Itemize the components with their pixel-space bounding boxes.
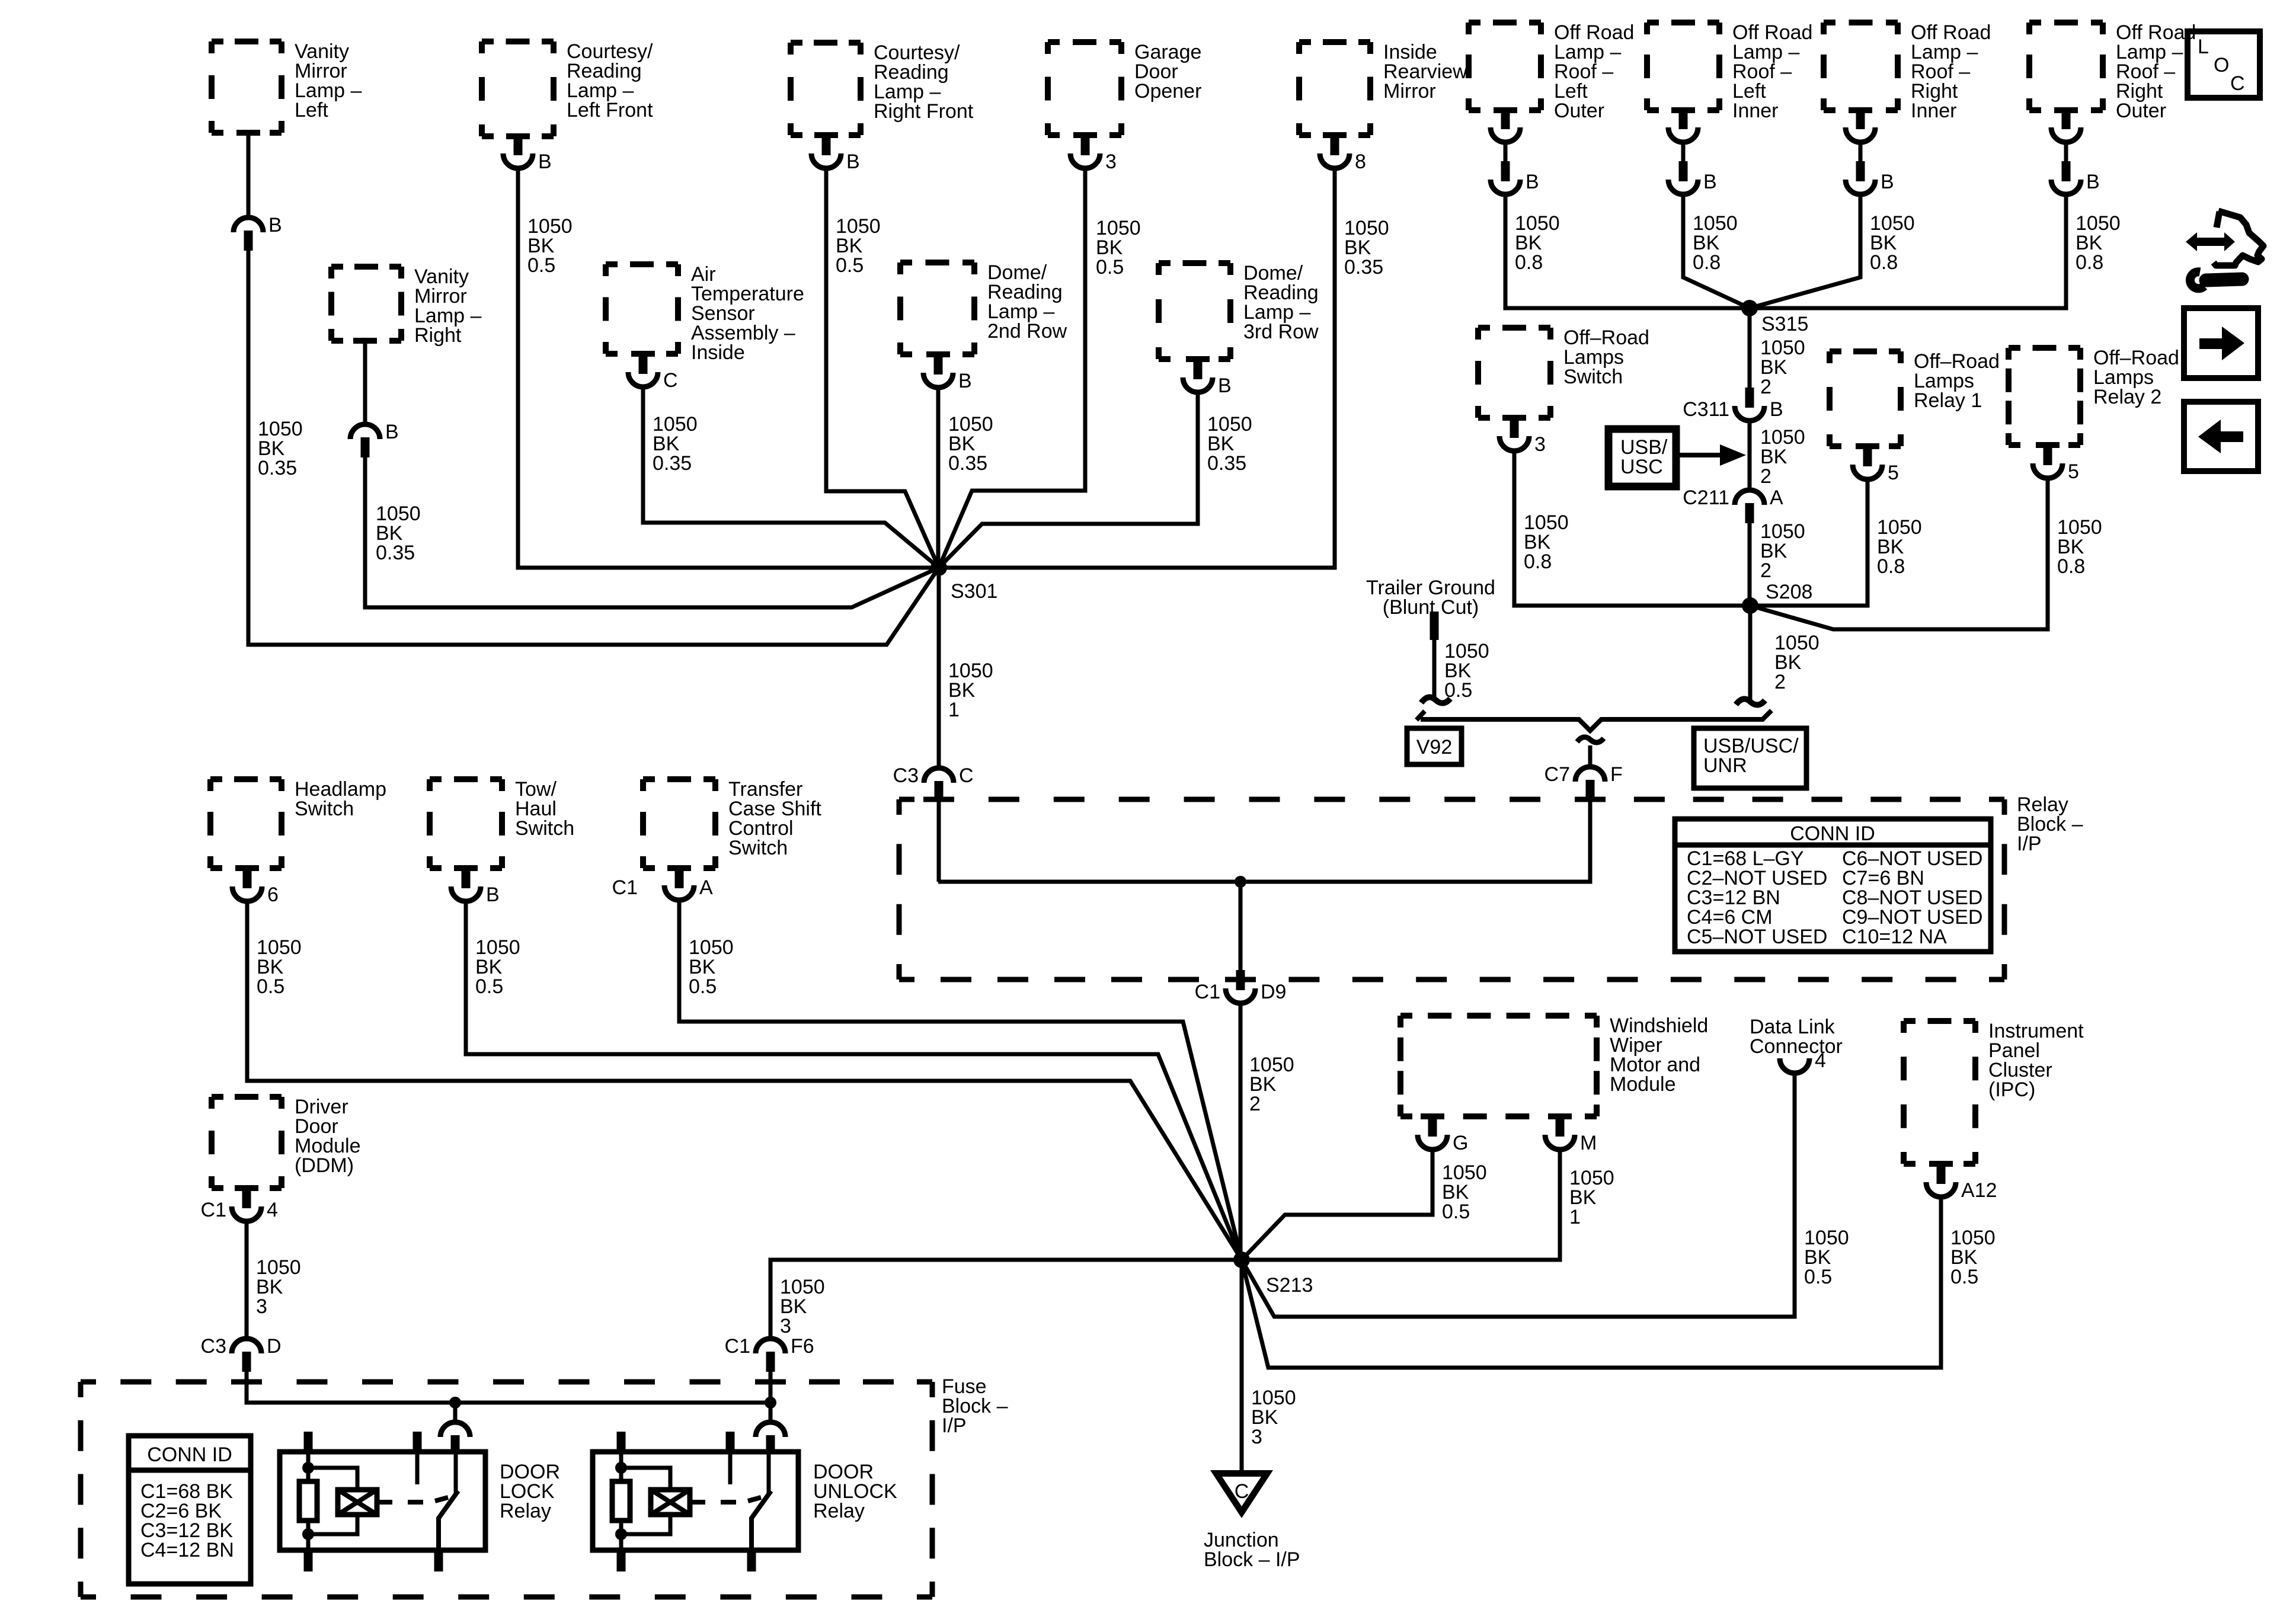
wire S213 left to C1-F6 drop 1050 BK 3 [770, 1260, 1242, 1337]
wire label 1050 BK 3 (to C1-F6) [780, 1276, 825, 1337]
svg-text:L: L [2198, 36, 2209, 58]
svg-text:Right Front: Right Front [874, 100, 974, 123]
wire label 1050 BK 0.35 (Inside Rearview Mirror) [1344, 217, 1389, 279]
svg-text:0.5: 0.5 [836, 254, 864, 277]
inline connector C311 pin B [1683, 388, 1783, 421]
svg-text:B: B [385, 421, 399, 443]
component box: Transfer Case Shift Control Switch [643, 778, 821, 868]
connector 5 of Off-Road Lamps Relay 2 (pin 5) [2033, 444, 2079, 483]
connector C of Air Temperature Sensor Assembly (pin C) [628, 353, 678, 392]
wire label 1050 BK 0.5 (Headlamp Switch) [257, 936, 302, 998]
svg-text:3: 3 [256, 1295, 267, 1318]
svg-text:3: 3 [1251, 1426, 1262, 1448]
wire label 1050 BK 0.8 (Relay 1) [1877, 516, 1922, 578]
wire Vanity-R 1050 BK 0.35 to S301 [365, 457, 939, 607]
svg-text:B: B [1703, 171, 1717, 193]
svg-text:UNR: UNR [1703, 754, 1747, 777]
svg-text:0.8: 0.8 [1524, 550, 1552, 573]
svg-text:I/P: I/P [942, 1414, 967, 1437]
svg-text:1: 1 [1569, 1206, 1581, 1228]
component box: Off-Road Lamps Relay 1 [1830, 350, 2000, 446]
wire label 1050 BK 0.35 (Air Temp Sensor) [653, 413, 698, 475]
svg-text:D9: D9 [1261, 981, 1286, 1003]
USB/USC callout box with arrow [1609, 429, 1746, 486]
inline connector pair of Off Road Lamp Right Inner (pin B) [1846, 109, 1894, 194]
wire C1-D9 down 1050 BK 2 to S213 [1240, 1003, 1294, 1260]
wire label 1050 BK 0.5 (Transfer Case Switch) [689, 936, 734, 998]
junction to DOOR UNLOCK relay coil (C1-F6 drop) [765, 1397, 776, 1409]
Trailer Ground (Blunt Cut) label [1366, 577, 1495, 619]
svg-text:M: M [1580, 1132, 1597, 1154]
inline connector C1 pin D9 (Relay Block bottom) [1195, 970, 1287, 1003]
wire Tow/Haul Switch 1050 BK 0.5 to S213 [466, 901, 1242, 1260]
svg-text:Connector: Connector [1750, 1035, 1843, 1058]
component box: Courtesy/Reading Lamp - Right Front [791, 41, 974, 135]
svg-text:S315: S315 [1761, 313, 1808, 335]
svg-text:2nd Row: 2nd Row [987, 320, 1067, 343]
wire C211 to S208 1050 BK 2 [1750, 520, 1805, 606]
component box: Driver Door Module (DDM) [212, 1096, 361, 1188]
svg-text:D: D [267, 1335, 282, 1358]
trailer ground blunt-cut stub and wire [1430, 612, 1439, 698]
connector B of Courtesy/Reading Lamp - Left Front (pin B) [503, 134, 552, 173]
svg-text:O: O [2214, 54, 2229, 76]
wire label 1050 BK 0.5 (Data Link Connector) [1804, 1227, 1849, 1288]
svg-text:B: B [1218, 375, 1232, 397]
svg-text:S301: S301 [951, 580, 997, 603]
svg-text:Left: Left [295, 99, 328, 121]
legend box arrow right [2184, 308, 2258, 378]
component box: Dome/Reading Lamp - 3rd Row [1159, 262, 1319, 359]
component box: Inside Rearview Mirror [1299, 41, 1467, 135]
svg-text:B: B [1770, 398, 1783, 421]
wire Garage Door Opener 1050 BK 0.5 to S301 [939, 168, 1085, 568]
svg-text:8: 8 [1355, 151, 1366, 173]
svg-text:Opener: Opener [1134, 80, 1201, 103]
wire Dome 2nd Row 1050 BK 0.35 to S301 [936, 388, 941, 568]
CONN ID table of Fuse Block [129, 1436, 251, 1584]
svg-text:(IPC): (IPC) [1988, 1078, 2035, 1101]
wire label 1050 BK 0.8 (Off Road Lamp Left Outer) [1515, 212, 1560, 274]
wire C3-D into fuse block to door lock relay junction [247, 1372, 770, 1403]
component box: Headlamp Switch [210, 778, 386, 868]
connector B of Vanity Mirror Lamp - Right (pin B) [350, 341, 399, 457]
svg-text:4: 4 [1815, 1049, 1826, 1072]
vehicle service icon with double arrow and wrench [2186, 211, 2263, 289]
svg-text:Relay: Relay [813, 1500, 865, 1522]
wire Air Temp Sensor 1050 BK 0.35 to S301 [643, 387, 939, 568]
inline connector pair of Off Road Lamp Right Outer (pin B) [2051, 109, 2100, 194]
svg-text:Relay: Relay [500, 1500, 551, 1522]
wire C1-F6 into fuse block to unlock relay junction [769, 1372, 773, 1403]
svg-text:0.5: 0.5 [1804, 1266, 1832, 1288]
component box: Instrument Panel Cluster (IPC) [1904, 1020, 2084, 1164]
svg-text:C1: C1 [1195, 981, 1220, 1003]
wire Courtesy-LF 1050 BK 0.5 to S301 [518, 168, 939, 568]
svg-text:3: 3 [1105, 151, 1117, 173]
svg-text:0.5: 0.5 [1096, 256, 1124, 279]
component box: Dome/Reading Lamp - 2nd Row [900, 261, 1067, 354]
Relay Block - I/P dashed outline [899, 793, 2083, 980]
svg-text:F6: F6 [791, 1335, 814, 1358]
wire Vanity-L 1050 BK 0.35 to S301 [248, 251, 939, 645]
svg-text:0.35: 0.35 [653, 452, 692, 475]
svg-text:S213: S213 [1266, 1274, 1313, 1297]
svg-text:3: 3 [780, 1315, 791, 1337]
component box: Garage Door Opener [1048, 41, 1201, 135]
wire junction down to C1-D9 [1239, 882, 1243, 970]
svg-text:Module: Module [1610, 1073, 1676, 1096]
wire label 1050 BK 0.5 (Garage Door Opener) [1096, 217, 1141, 279]
splice S213 [1233, 1251, 1313, 1297]
svg-text:Inner: Inner [1911, 100, 1957, 122]
svg-text:C3: C3 [893, 764, 919, 787]
svg-text:Inner: Inner [1732, 100, 1779, 122]
component box: Courtesy/Reading Lamp - Left Front [482, 40, 653, 136]
svg-text:C1: C1 [725, 1335, 750, 1358]
ground gather brace into C7 [1416, 710, 1771, 742]
wire label 1050 BK 0.5 (Wiper G) [1442, 1161, 1487, 1223]
blunt-cut curl at end of trailer ground wire [1421, 697, 1450, 703]
wire S213 down 1050 BK 3 to Junction Block [1242, 1260, 1296, 1473]
connector A12 of Instrument Panel Cluster [1926, 1163, 1997, 1202]
svg-text:C7: C7 [1544, 763, 1570, 786]
svg-text:0.35: 0.35 [948, 452, 987, 475]
svg-text:4: 4 [267, 1199, 278, 1221]
connector G of Windshield Wiper Motor (pin G) [1418, 1115, 1468, 1154]
svg-text:Switch: Switch [515, 817, 574, 840]
svg-text:C: C [1235, 1480, 1249, 1503]
svg-text:0.5: 0.5 [689, 975, 717, 998]
wire Data Link Connector 1050 BK 0.5 to S213 [1242, 1073, 1795, 1317]
inline connector pair of Off Road Lamp Left Outer (pin B) [1491, 109, 1539, 194]
wire label 1050 BK 0.35 (Vanity-L) [258, 418, 303, 479]
component box: Off Road Lamp - Roof - Left Inner [1647, 21, 1812, 122]
inline connector C3 pin D (Fuse Block) [201, 1335, 282, 1372]
wire S208 down 1050 BK 2 to ground gather [1750, 606, 1819, 702]
svg-text:C: C [959, 764, 974, 787]
inline connector C211 pin A [1683, 486, 1783, 523]
splice S301 [930, 559, 997, 603]
wire Transfer Case Switch 1050 BK 0.5 to S213 [679, 900, 1242, 1260]
wire IPC A12 1050 BK 0.5 to S213 [1242, 1197, 1941, 1368]
svg-text:5: 5 [1888, 462, 1899, 484]
svg-text:Switch: Switch [1563, 366, 1623, 388]
wire Off Road Lamp Right Inner to S315 [1750, 194, 1860, 308]
component box: Off Road Lamp - Roof - Right Inner [1824, 21, 1991, 122]
svg-text:0.8: 0.8 [1693, 251, 1721, 274]
svg-text:B: B [538, 151, 552, 173]
relay K2 DOOR UNLOCK Relay [593, 1432, 897, 1571]
wire C3-C into relay block down to horizontal run [937, 801, 941, 882]
wire Off Road Lamp Left Inner to S315 [1683, 194, 1750, 308]
inline connector C1 pin 4 (DDM) [201, 1188, 278, 1221]
legend box arrow left [2184, 402, 2258, 471]
svg-text:B: B [268, 214, 282, 236]
wire label 1050 BK 0.8 (Off Road Lamp Right Inner) [1870, 212, 1915, 274]
wire C311 to C211 1050 BK 2 [1750, 421, 1805, 488]
svg-text:Mirror: Mirror [1383, 80, 1436, 103]
wire label 1050 BK 0.35 (Vanity-R) [376, 502, 421, 564]
wire label 1050 BK 0.8 (Off Road Lamp Left Inner) [1693, 212, 1738, 274]
svg-text:C1: C1 [201, 1199, 226, 1221]
connector 5 of Off-Road Lamps Relay 1 (pin 5) [1853, 445, 1899, 484]
svg-text:S208: S208 [1766, 581, 1812, 603]
svg-text:2: 2 [1774, 671, 1786, 693]
wire Headlamp Switch 1050 BK 0.5 to S213 [247, 901, 1242, 1260]
wire junction down to DOOR LOCK relay with connector [440, 1403, 470, 1453]
svg-text:3: 3 [1534, 433, 1546, 456]
wire Wiper M 1050 BK 1 to S213 [1242, 1150, 1560, 1260]
wire Off-Road Lamps Relay 1 1050 BK 0.8 to S208 [1750, 479, 1868, 606]
connector 6 of Headlamp Switch (pin 6) [232, 867, 279, 906]
svg-text:0.35: 0.35 [376, 542, 415, 564]
svg-text:C211: C211 [1683, 486, 1729, 509]
connector B of Vanity Mirror Lamp - Left (pin B) [234, 133, 282, 251]
wire label 1050 BK 0.5 (trailer ground) [1444, 640, 1489, 702]
junction to DOOR LOCK relay coil [449, 1397, 461, 1409]
connector M of Windshield Wiper Motor (pin M) [1545, 1115, 1597, 1154]
wire label 1050 BK 1 (Wiper M) [1569, 1167, 1614, 1228]
wire junction down to DOOR UNLOCK relay with connector [756, 1403, 785, 1453]
connector C1-A of Transfer Case Shift Control Switch [612, 867, 713, 900]
inline connector pair of Off Road Lamp Left Inner (pin B) [1668, 109, 1717, 194]
component box: Off-Road Lamps Relay 2 [2009, 347, 2179, 445]
LOC legend box [2188, 31, 2260, 98]
wire label 1050 BK 0.5 (IPC) [1950, 1227, 1996, 1288]
svg-text:CONN ID: CONN ID [147, 1443, 232, 1466]
svg-text:C4=12 BN: C4=12 BN [140, 1539, 234, 1561]
svg-text:G: G [1453, 1132, 1468, 1154]
Fuse Block - I/P dashed outline [81, 1375, 1008, 1597]
svg-text:Inside: Inside [691, 341, 745, 364]
svg-text:0.5: 0.5 [475, 975, 503, 998]
svg-text:V92: V92 [1416, 736, 1453, 758]
svg-text:0.5: 0.5 [1444, 679, 1472, 702]
svg-text:B: B [958, 370, 972, 392]
svg-text:B: B [1526, 171, 1539, 193]
connector B of Tow/Haul Switch (pin B) [451, 867, 500, 906]
component box: Vanity Mirror Lamp - Left [212, 40, 362, 133]
svg-text:0.5: 0.5 [1442, 1201, 1470, 1223]
svg-text:Outer: Outer [2116, 100, 2166, 122]
svg-text:F: F [1610, 763, 1623, 786]
wire S301 down 1050 BK 1 to C3-C [939, 568, 993, 766]
wire label 1050 BK 0.5 (Courtesy-RF) [836, 215, 881, 277]
svg-text:A12: A12 [1961, 1179, 1997, 1202]
svg-text:0.8: 0.8 [1877, 555, 1905, 578]
connector B of Dome/Reading Lamp 2nd Row (pin B) [923, 353, 972, 392]
inline connector C3 pin C (Relay Block) [893, 764, 974, 801]
wire Inside Rearview Mirror 1050 BK 0.35 to S301 [939, 168, 1335, 568]
component box: Air Temperature Sensor Assembly - Inside [606, 263, 804, 364]
svg-text:3rd Row: 3rd Row [1243, 321, 1319, 343]
inline connector C1 pin F6 (Fuse Block) [725, 1335, 814, 1372]
wire from ground gather to C7-F [1588, 745, 1593, 766]
wire label 1050 BK 0.8 (Off Road Lamp Right Outer) [2076, 212, 2121, 274]
svg-text:C: C [2230, 72, 2245, 95]
connector B of Courtesy/Reading Lamp - Right Front (pin B) [811, 134, 860, 173]
ground terminal C triangle at Junction Block - I/P [1210, 1470, 1273, 1518]
connector 8 of Inside Rearview Mirror (pin 8) [1320, 134, 1366, 173]
CONN ID table of Relay Block [1675, 819, 1991, 952]
svg-text:0.8: 0.8 [1870, 251, 1898, 274]
wire label 1050 BK 0.5 (Tow/Haul Switch) [475, 936, 520, 998]
wire C7-F into relay block to C1-D9 junction [938, 800, 1590, 882]
component box: Vanity Mirror Lamp - Right [331, 265, 481, 347]
inline connector C7 pin F (Relay Block) [1544, 763, 1623, 800]
svg-text:(DDM): (DDM) [295, 1154, 354, 1177]
svg-text:0.8: 0.8 [2057, 555, 2085, 578]
svg-text:2: 2 [1760, 559, 1771, 582]
wire label 1050 BK 0.8 (Relay 2) [2057, 516, 2102, 578]
svg-text:C10=12 NA: C10=12 NA [1842, 926, 1947, 948]
wire Dome 3rd Row 1050 BK 0.35 to S301 [939, 392, 1198, 568]
svg-text:C3: C3 [201, 1335, 226, 1358]
svg-text:0.5: 0.5 [527, 254, 555, 277]
svg-text:5: 5 [2068, 460, 2079, 483]
component box: Windshield Wiper Motor and Module [1400, 1014, 1708, 1116]
svg-text:0.35: 0.35 [258, 457, 297, 479]
svg-text:B: B [486, 884, 500, 906]
splice S315 [1741, 300, 1808, 335]
connector 3 of Garage Door Opener (pin 3) [1070, 134, 1117, 173]
wire label 1050 BK 0.35 (Dome 2nd Row) [948, 413, 993, 475]
svg-text:2: 2 [1760, 465, 1771, 488]
connector 3 of Off-Road Lamps Switch (pin 3) [1499, 417, 1546, 456]
svg-text:Switch: Switch [728, 837, 788, 859]
relay K1 DOOR LOCK Relay [280, 1432, 560, 1571]
component box: Off-Road Lamps Switch [1478, 327, 1649, 418]
wire Courtesy-RF 1050 BK 0.5 to S301 [826, 168, 939, 568]
svg-text:Right: Right [414, 324, 462, 347]
svg-text:0.5: 0.5 [1950, 1266, 1978, 1288]
svg-text:Relay 2: Relay 2 [2093, 386, 2161, 408]
svg-text:CONN ID: CONN ID [1790, 822, 1875, 845]
Data Link Connector label [1750, 1016, 1843, 1058]
component box: Off Road Lamp - Roof - Right Outer [2029, 21, 2196, 122]
svg-text:0.5: 0.5 [257, 975, 284, 998]
blunt-cut curl at end of S208 ground wire [1736, 699, 1765, 705]
svg-text:0.8: 0.8 [1515, 251, 1543, 274]
svg-text:0.35: 0.35 [1344, 256, 1383, 279]
svg-text:A: A [699, 876, 713, 899]
svg-text:B: B [1881, 171, 1894, 193]
svg-text:Block – I/P: Block – I/P [1204, 1548, 1300, 1571]
svg-text:I/P: I/P [2017, 833, 2042, 855]
wire Off-Road Lamps Relay 2 1050 BK 0.8 to S208 [1750, 478, 2048, 629]
wire Off-Road Lamps Switch 1050 BK 0.8 to S208 [1514, 451, 1750, 606]
svg-text:0.35: 0.35 [1207, 452, 1246, 475]
wire Off Road Lamp Right Outer to S315 [1750, 194, 2066, 308]
V92 callout box [1407, 728, 1462, 764]
wire label 1050 BK 0.35 (Dome 3rd Row) [1207, 413, 1252, 475]
svg-text:Relay 1: Relay 1 [1914, 389, 1982, 412]
junction of C7-F run and C1-D9 drop [1235, 876, 1246, 888]
wire S315 to C311 1050 BK 2 [1750, 308, 1805, 398]
svg-text:B: B [846, 151, 860, 173]
svg-text:Outer: Outer [1554, 100, 1604, 122]
Junction Block - I/P label [1204, 1529, 1300, 1571]
svg-text:2: 2 [1249, 1093, 1261, 1115]
wire label 1050 BK 0.5 (Courtesy-LF) [527, 215, 573, 277]
USB/USC/UNR callout box [1694, 728, 1806, 788]
splice S208 [1742, 581, 1812, 614]
svg-text:Left Front: Left Front [567, 99, 653, 121]
wire label 1050 BK 0.8 (Off-Road Lamps Switch) [1524, 511, 1569, 573]
svg-text:Switch: Switch [295, 798, 354, 820]
component box: Off Road Lamp - Roof - Left Outer [1469, 21, 1634, 122]
component box: Tow/Haul Switch [430, 778, 574, 868]
svg-text:C311: C311 [1683, 398, 1729, 421]
svg-text:C: C [663, 369, 678, 392]
svg-text:USC: USC [1620, 456, 1663, 478]
wire Off Road Lamp Left Outer to S315 [1505, 194, 1750, 308]
svg-text:B: B [2086, 171, 2100, 193]
svg-text:2: 2 [1760, 376, 1771, 398]
svg-text:6: 6 [267, 884, 279, 906]
wire DDM 1050 BK 3 to C3-D [247, 1221, 301, 1337]
connector B of Dome/Reading Lamp 3rd Row (pin B) [1183, 358, 1232, 397]
svg-text:1: 1 [948, 699, 960, 721]
wire Wiper G 1050 BK 0.5 to S213 [1242, 1150, 1432, 1260]
svg-text:A: A [1770, 486, 1783, 509]
svg-text:C5–NOT USED: C5–NOT USED [1687, 926, 1827, 948]
svg-text:C1: C1 [612, 876, 638, 899]
connector 4 of Data Link Connector [1780, 1049, 1826, 1073]
svg-text:0.8: 0.8 [2076, 251, 2103, 274]
